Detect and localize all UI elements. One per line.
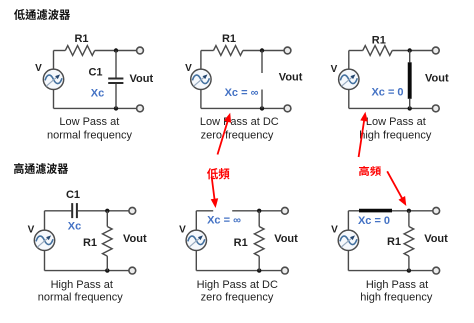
open capacitor upper lead (circuit 2): [261, 51, 263, 74]
resistor R1 (circuit 4): [103, 227, 113, 257]
wire R1 to node (circuit 1): [95, 50, 116, 52]
svg-text:Vout: Vout: [123, 233, 147, 245]
svg-text:Xc = ∞: Xc = ∞: [207, 215, 241, 227]
output terminal Vout+ (circuit 4): [129, 207, 136, 214]
wire left rail lower (circuit 3): [348, 89, 350, 108]
red label low frequency (Chinese): [207, 168, 230, 179]
red arrow to circuit 5 (low freq down): [211, 178, 219, 208]
wire bottom node to terminal (circuit 4): [107, 270, 132, 272]
wire bottom (circuit 4): [45, 270, 108, 272]
wire bottom (circuit 5): [196, 270, 259, 272]
svg-text:high frequency: high frequency: [359, 129, 432, 141]
wire left rail lower (circuit 6): [347, 250, 349, 270]
svg-text:High Pass at DC: High Pass at DC: [197, 279, 278, 291]
output terminal Vout- (circuit 6): [433, 267, 440, 274]
wire capacitor bottom to node (circuit 1): [115, 84, 117, 109]
wire R1 to node (circuit 3): [392, 50, 410, 52]
svg-text:Vout: Vout: [274, 233, 298, 245]
wire R1 bottom to node (circuit 4): [106, 256, 108, 271]
AC source V (circuit 5): [186, 230, 206, 250]
resistor R1 (circuit 6): [404, 227, 414, 257]
resistor R1 (circuit 1): [65, 46, 94, 56]
resistor R1 (circuit 3): [363, 46, 392, 56]
AC source V (circuit 6): [338, 230, 358, 250]
red label high frequency (Chinese): [359, 166, 381, 176]
wire bottom node to terminal (circuit 3): [410, 107, 436, 109]
wire left rail upper (circuit 6): [347, 211, 349, 230]
output terminal Vout+ (circuit 6): [433, 207, 440, 214]
wire bottom (circuit 3): [349, 107, 410, 109]
junction node top (circuit 3): [408, 48, 412, 52]
wire left rail upper (circuit 2): [200, 51, 202, 70]
wire left rail lower (circuit 2): [200, 89, 202, 108]
wire R1 bottom to node (circuit 6): [408, 256, 410, 271]
wire node to output terminal (circuit 3): [410, 50, 436, 52]
wire bottom node to terminal (circuit 5): [259, 270, 285, 272]
junction node bottom (circuit 6): [407, 268, 411, 272]
short-circuit bar Xc=0 (circuit 3): [408, 62, 412, 99]
wire node to R1 top (circuit 6): [408, 211, 410, 227]
wire bottom (circuit 6): [348, 270, 409, 272]
open capacitor left lead (circuit 5): [196, 210, 213, 212]
svg-text:R1: R1: [234, 237, 248, 249]
junction node top (circuit 5): [257, 209, 261, 213]
wire node to output terminal (circuit 2): [262, 50, 288, 52]
junction node bottom (circuit 5): [257, 268, 261, 272]
red arrow to circuit 2 (low freq up): [218, 113, 232, 155]
svg-text:Vout: Vout: [425, 73, 449, 85]
wire R1 bottom to node (circuit 5): [258, 256, 260, 271]
output terminal Vout+ (circuit 1): [137, 47, 144, 54]
capacitor C1 plates (circuit 4): [72, 203, 77, 218]
junction node top (circuit 6): [407, 209, 411, 213]
wire node to output terminal (circuit 6): [409, 210, 436, 212]
svg-text:V: V: [35, 63, 42, 74]
open capacitor lower lead (circuit 2): [261, 90, 263, 109]
svg-text:V: V: [331, 64, 338, 75]
AC source V (circuit 4): [34, 230, 54, 250]
AC source V (circuit 1): [43, 69, 63, 89]
wire R1 to node (circuit 2): [243, 50, 262, 52]
junction node bottom (circuit 3): [408, 106, 412, 110]
svg-text:normal frequency: normal frequency: [38, 292, 123, 304]
svg-text:Vout: Vout: [279, 72, 303, 84]
resistor R1 (circuit 5): [254, 227, 264, 257]
junction node top (circuit 4): [105, 209, 109, 213]
svg-text:High Pass at: High Pass at: [51, 279, 113, 291]
title low-pass filter (Chinese): [14, 9, 70, 20]
AC source V (circuit 3): [339, 69, 359, 89]
wire left rail lower (circuit 4): [44, 250, 46, 270]
svg-text:Xc = ∞: Xc = ∞: [225, 87, 259, 99]
wire node to R1 top (circuit 4): [106, 211, 108, 227]
red arrow to circuit 3 (high freq up): [359, 112, 368, 157]
wire top-left segment (circuit 6): [348, 210, 359, 212]
svg-text:normal frequency: normal frequency: [47, 129, 132, 141]
capacitor C1 plates (circuit 1): [108, 79, 123, 84]
svg-text:Xc = 0: Xc = 0: [371, 87, 403, 99]
svg-text:V: V: [179, 225, 186, 236]
wire left rail lower (circuit 5): [195, 250, 197, 270]
output terminal Vout- (circuit 5): [282, 267, 289, 274]
wire bottom (circuit 2): [201, 107, 262, 109]
AC source V (circuit 2): [191, 69, 211, 89]
svg-text:V: V: [185, 63, 192, 74]
svg-text:C1: C1: [88, 67, 102, 79]
wire node to R1 top (circuit 5): [258, 211, 260, 227]
junction node top (circuit 1): [114, 48, 118, 52]
svg-text:zero frequency: zero frequency: [201, 129, 274, 141]
output terminal Vout+ (circuit 3): [432, 47, 439, 54]
wire bottom node to terminal (circuit 1): [116, 107, 140, 109]
junction node bottom (circuit 1): [114, 106, 118, 110]
wire node to output terminal (circuit 4): [107, 210, 132, 212]
svg-text:Xc = 0: Xc = 0: [358, 215, 390, 227]
svg-text:High Pass at: High Pass at: [366, 279, 428, 291]
svg-text:R1: R1: [222, 33, 236, 45]
wire top-left to capacitor (circuit 4): [45, 210, 72, 212]
wire capacitor to node (circuit 4): [78, 210, 108, 212]
wire node to capacitor top (circuit 1): [115, 51, 117, 78]
svg-text:Low Pass at: Low Pass at: [59, 116, 119, 128]
wire bottom node to terminal (circuit 2): [262, 107, 288, 109]
title high-pass filter (Chinese): [14, 163, 68, 174]
svg-text:C1: C1: [66, 189, 80, 201]
wire left rail upper (circuit 3): [348, 51, 350, 70]
output terminal Vout+ (circuit 2): [284, 47, 291, 54]
svg-text:Low Pass at DC: Low Pass at DC: [200, 116, 279, 128]
wire top-left segment (circuit 2): [201, 50, 214, 52]
wire short bar to node (circuit 6): [392, 210, 409, 212]
svg-text:R1: R1: [372, 35, 386, 47]
wire left rail upper (circuit 4): [44, 211, 46, 230]
junction node top (circuit 2): [260, 48, 264, 52]
junction node bottom (circuit 2): [260, 106, 264, 110]
svg-text:V: V: [331, 225, 338, 236]
svg-text:V: V: [28, 225, 35, 236]
svg-text:R1: R1: [83, 237, 97, 249]
svg-text:Low Pass at: Low Pass at: [366, 116, 426, 128]
open capacitor right lead (circuit 5): [232, 210, 259, 212]
output terminal Vout+ (circuit 5): [282, 207, 289, 214]
svg-text:Xc: Xc: [68, 221, 81, 233]
output terminal Vout- (circuit 2): [284, 105, 291, 112]
wire left rail upper (circuit 5): [195, 211, 197, 230]
svg-text:R1: R1: [74, 33, 88, 45]
output terminal Vout- (circuit 3): [432, 105, 439, 112]
svg-text:high frequency: high frequency: [360, 292, 433, 304]
svg-text:Xc: Xc: [91, 88, 104, 100]
svg-text:Vout: Vout: [130, 73, 154, 85]
red arrow to circuit 6 (high freq down): [387, 171, 406, 206]
wire bottom node to terminal (circuit 6): [409, 270, 436, 272]
wire node to output terminal (circuit 1): [116, 50, 140, 52]
wire left rail upper (circuit 1): [53, 51, 55, 70]
wire top-left segment (circuit 3): [349, 50, 363, 52]
wire short bar bottom to node (circuit 3): [409, 99, 411, 109]
output terminal Vout- (circuit 4): [129, 267, 136, 274]
svg-text:R1: R1: [387, 236, 401, 248]
svg-text:Vout: Vout: [424, 233, 448, 245]
short-circuit bar Xc=0 (circuit 6): [359, 209, 392, 213]
junction node bottom (circuit 4): [105, 268, 109, 272]
wire left rail lower (circuit 1): [53, 89, 55, 108]
wire bottom (circuit 1): [54, 107, 117, 109]
wire node to short bar top (circuit 3): [409, 51, 411, 63]
wire node to output terminal (circuit 5): [259, 210, 285, 212]
resistor R1 (circuit 2): [214, 46, 243, 56]
output terminal Vout- (circuit 1): [137, 105, 144, 112]
svg-text:zero frequency: zero frequency: [201, 292, 274, 304]
wire top-left segment (circuit 1): [54, 50, 66, 52]
